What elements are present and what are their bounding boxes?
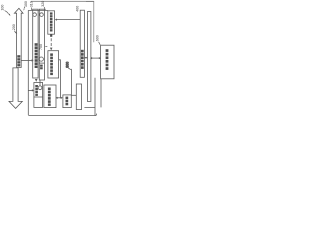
svg-text:400: 400 [76,6,80,12]
svg-text:320: 320 [41,1,45,7]
outer device box top edge [28,9,48,11]
double arrow between box6 and box7 [57,97,62,99]
box4 (lower middle box) [48,51,59,78]
svg-text:300: 300 [24,1,28,7]
circle in strip2 top [40,13,44,17]
svg-text:800: 800 [66,62,70,68]
strip2 lower text blobs [40,65,43,70]
horizontal arrow a2 into lower-left box [28,89,32,91]
svg-text:700: 700 [39,44,43,50]
box9 (narrow bottom) [76,84,81,110]
svg-text:200: 200 [12,24,16,30]
lower-left text blobs [35,85,38,96]
inner right compartment bottom [84,78,95,116]
dashed arrow from box3 down to box4 [50,34,52,36]
box3 text column [50,12,53,31]
box4 right tick + vertical V1 down [59,60,61,98]
narrow box1 (tall) [80,10,84,77]
right box connectors [85,57,87,59]
label 100 leader [5,11,9,14]
box4 text column [50,53,53,75]
shelf under middle circle [39,62,44,64]
box7 (bottom) [63,95,71,108]
box7 right tick [71,94,76,96]
box7 text column [66,97,69,106]
circle above lower-left box [39,80,41,86]
circle in strip1 top [33,13,37,17]
svg-text:100: 100 [1,5,5,11]
circle in strip2 middle [39,57,43,61]
narrow box2 (tall) [88,12,91,102]
narrow box1 text column [81,50,84,69]
right text box [101,45,114,79]
hollow down arrow (light in) [9,68,22,109]
strip2 (tall layer box) [39,9,44,80]
outer device box left edge [27,10,29,115]
faint outer shell top edge [31,0,94,2]
horizontal arrow a1 into strip1 [21,59,32,61]
box3 (upper middle box) [48,11,55,34]
V2 vertical from label to box7 [68,68,71,95]
horizontal connector a3 from box3 to narrow box1 [56,19,80,21]
arrowhead under strip1 [35,79,38,82]
lower-left stacked boxes [34,83,43,108]
label blob 800 [66,62,70,68]
right box text column [106,49,109,70]
strip1 text column [35,43,38,68]
svg-text:310: 310 [29,1,33,7]
hollow up arrow (light out) [14,8,23,67]
faint outer shell right edge (top part) [86,1,94,42]
vertical from right box bottom down [100,79,102,108]
box6 text column [48,88,51,106]
text blobs inside up-arrow shaft [17,55,20,66]
strip1 (tall layer box) [33,9,38,78]
outer device box bottom edge [28,114,96,116]
svg-text:600: 600 [96,35,100,41]
labels (rotated digits) [1,1,101,50]
box6 (bottom) [44,85,56,108]
